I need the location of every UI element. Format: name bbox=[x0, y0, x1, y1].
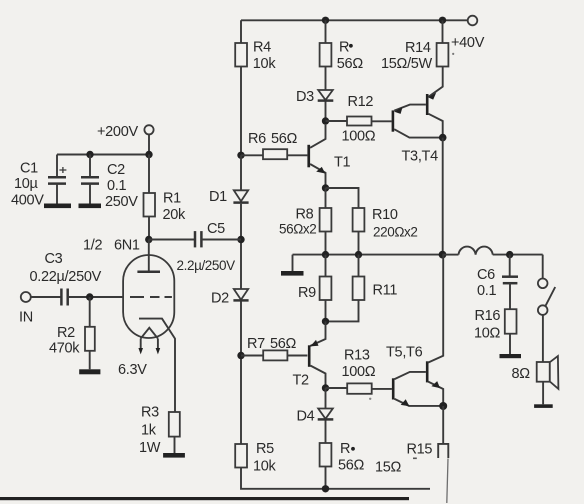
svg-text:15Ω: 15Ω bbox=[375, 460, 402, 476]
svg-text:C3: C3 bbox=[45, 251, 63, 267]
svg-text:6N1: 6N1 bbox=[114, 238, 140, 254]
svg-text:R6: R6 bbox=[248, 131, 266, 147]
svg-text:C5: C5 bbox=[207, 221, 225, 237]
svg-text:T5,T6: T5,T6 bbox=[386, 345, 423, 361]
svg-text:470k: 470k bbox=[49, 341, 80, 357]
svg-text:T2: T2 bbox=[293, 373, 310, 389]
svg-text:400V: 400V bbox=[11, 193, 44, 209]
svg-text:R14: R14 bbox=[405, 40, 431, 56]
svg-text:+200V: +200V bbox=[97, 124, 138, 140]
svg-text:100Ω: 100Ω bbox=[342, 129, 376, 145]
svg-text:56Ω: 56Ω bbox=[271, 131, 298, 147]
svg-text:R15: R15 bbox=[407, 442, 433, 458]
svg-text:R11: R11 bbox=[373, 283, 398, 299]
svg-text:R9: R9 bbox=[298, 285, 316, 301]
svg-text:R: R bbox=[339, 40, 349, 56]
svg-text:56Ω: 56Ω bbox=[337, 56, 364, 72]
svg-text:1/2: 1/2 bbox=[83, 238, 102, 254]
svg-text:R4: R4 bbox=[253, 40, 271, 56]
svg-text:1k: 1k bbox=[141, 423, 157, 439]
svg-text:10k: 10k bbox=[253, 56, 277, 72]
svg-text:1W: 1W bbox=[139, 440, 161, 456]
svg-text:R12: R12 bbox=[348, 94, 374, 110]
svg-text:10µ: 10µ bbox=[14, 176, 39, 192]
svg-text:56Ω: 56Ω bbox=[270, 336, 297, 352]
svg-text:T3,T4: T3,T4 bbox=[402, 149, 439, 165]
svg-text:10k: 10k bbox=[253, 459, 277, 475]
svg-text:0.1: 0.1 bbox=[477, 283, 496, 299]
svg-text:56Ω: 56Ω bbox=[338, 458, 365, 474]
svg-text:6.3V: 6.3V bbox=[118, 362, 147, 378]
svg-text:R7: R7 bbox=[247, 336, 265, 352]
svg-text:0.1: 0.1 bbox=[107, 178, 126, 194]
svg-text:2.2µ/250V: 2.2µ/250V bbox=[177, 258, 236, 273]
svg-text:R5: R5 bbox=[256, 441, 274, 457]
svg-text:C1: C1 bbox=[20, 161, 38, 177]
svg-text:R10: R10 bbox=[372, 207, 398, 223]
svg-text:R2: R2 bbox=[57, 325, 75, 341]
svg-text:D4: D4 bbox=[297, 409, 315, 425]
svg-text:100Ω: 100Ω bbox=[342, 364, 376, 380]
svg-text:D2: D2 bbox=[211, 291, 229, 307]
svg-text:220Ωx2: 220Ωx2 bbox=[373, 225, 417, 240]
svg-text:R8: R8 bbox=[296, 207, 314, 223]
svg-text:10Ω: 10Ω bbox=[474, 326, 501, 342]
svg-text:R3: R3 bbox=[141, 405, 159, 421]
svg-text:D3: D3 bbox=[296, 89, 314, 105]
svg-text:250V: 250V bbox=[105, 194, 138, 210]
svg-text:C6: C6 bbox=[477, 267, 495, 283]
svg-text:20k: 20k bbox=[163, 207, 187, 223]
svg-text:IN: IN bbox=[19, 310, 33, 326]
svg-text:+40V: +40V bbox=[451, 35, 485, 51]
svg-text:T1: T1 bbox=[334, 155, 351, 171]
svg-text:0.22µ/250V: 0.22µ/250V bbox=[30, 269, 102, 285]
svg-text:D1: D1 bbox=[209, 189, 227, 205]
svg-text:R16: R16 bbox=[475, 308, 501, 324]
svg-text:R13: R13 bbox=[344, 348, 370, 364]
svg-text:8Ω: 8Ω bbox=[512, 366, 531, 382]
svg-text:15Ω/5W: 15Ω/5W bbox=[381, 56, 433, 72]
svg-text:C2: C2 bbox=[107, 162, 125, 178]
svg-text:R1: R1 bbox=[163, 191, 181, 207]
svg-text:56Ωx2: 56Ωx2 bbox=[279, 222, 316, 237]
svg-text:R: R bbox=[340, 441, 350, 457]
